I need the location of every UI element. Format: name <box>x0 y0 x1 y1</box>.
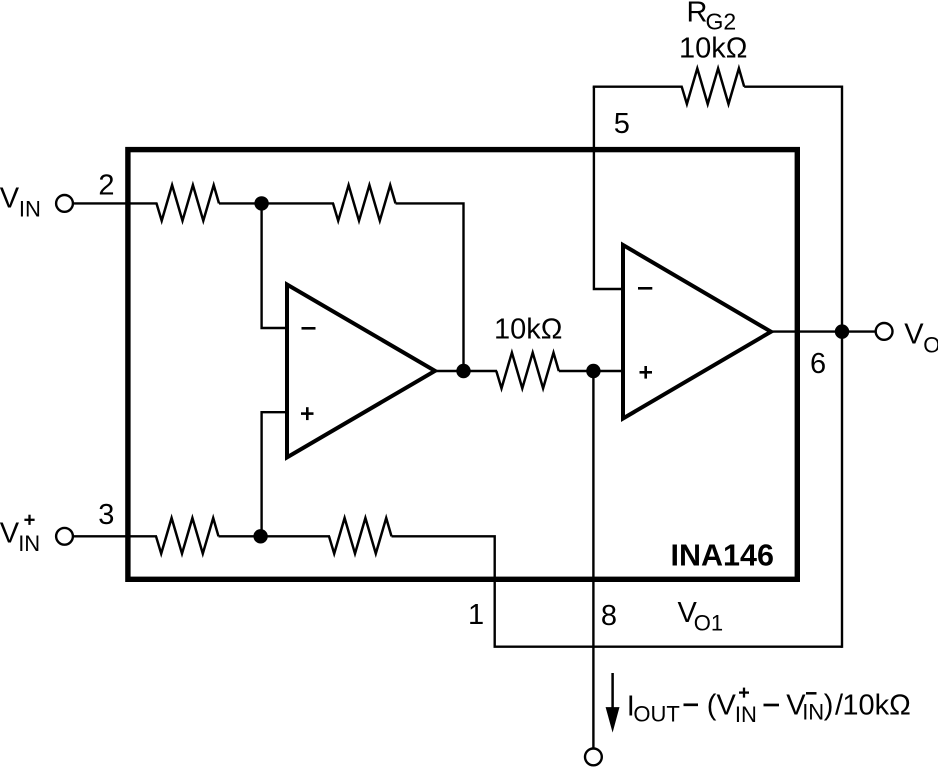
node B (V_IN+ resistor junction) <box>253 529 267 543</box>
terminal V_IN+ <box>56 528 73 545</box>
resistor R3b (lower feedback resistor) <box>329 518 392 554</box>
svg-text:V: V <box>0 182 20 214</box>
svg-text:G2: G2 <box>706 9 737 35</box>
wire to corner right of R1b <box>396 203 464 371</box>
svg-text:IN: IN <box>802 700 824 725</box>
wire to op-amp U2 non-inverting input <box>559 370 623 372</box>
node A (V_IN resistor junction) <box>254 196 268 210</box>
svg-text:IN: IN <box>19 196 41 221</box>
svg-text:2: 2 <box>98 170 114 202</box>
svg-text:8: 8 <box>601 600 617 632</box>
svg-text:10kΩ: 10kΩ <box>842 690 910 722</box>
op-amp U1 plus sign <box>301 412 314 415</box>
wire U2 output to V_O terminal <box>771 330 875 332</box>
svg-text:10kΩ: 10kΩ <box>494 314 562 346</box>
svg-text:OUT: OUT <box>633 702 679 727</box>
op-amp U1 minus sign <box>302 327 316 330</box>
resistor R_G2 <box>682 68 745 104</box>
op-amp U2 plus sign <box>640 371 653 374</box>
svg-text:): ) <box>824 690 834 722</box>
svg-text:5: 5 <box>614 108 630 140</box>
svg-text:O1: O1 <box>694 610 723 635</box>
svg-text:V: V <box>904 319 924 351</box>
svg-text:IN: IN <box>18 531 40 556</box>
resistor R1a (V_IN input resistor) <box>157 185 220 221</box>
svg-text:1: 1 <box>468 599 484 631</box>
svg-text:O: O <box>923 333 938 358</box>
svg-text:R: R <box>687 0 708 29</box>
resistor 10k middle <box>496 353 559 389</box>
wire node B segment <box>219 535 331 537</box>
svg-text:V: V <box>0 517 20 549</box>
node pin 8 junction <box>586 364 600 378</box>
wire V_IN input to resistor <box>74 202 158 204</box>
wire node A segment <box>219 202 334 204</box>
terminal I_OUT bottom <box>585 749 602 766</box>
wire R_G2 right segment down to bottom wire <box>744 87 842 648</box>
wire pin 1 down and along bottom <box>392 536 843 646</box>
svg-text:10kΩ: 10kΩ <box>679 32 747 64</box>
wire pin 8 down to bottom terminal <box>592 371 594 748</box>
wire U1 output row to resistor <box>435 370 497 372</box>
svg-text:IN: IN <box>735 702 757 727</box>
wire op-amp U1 non-inverting input <box>262 412 287 536</box>
wire V_IN+ input to resistor <box>74 535 158 537</box>
arrow I_OUT <box>611 673 614 710</box>
svg-text:INA146: INA146 <box>671 539 774 573</box>
wire R_G2 left segment <box>593 85 683 87</box>
wire pin 5 to U2 inverting input <box>594 87 623 289</box>
svg-text:(V: (V <box>707 690 737 722</box>
node V_O junction <box>835 324 849 338</box>
IC outline box INA146 <box>128 150 797 580</box>
op-amp U1 <box>287 285 435 458</box>
terminal V_O <box>876 323 893 340</box>
svg-text:6: 6 <box>810 348 826 380</box>
resistor R1b (feedback resistor top) <box>333 185 396 221</box>
resistor R3a (V_IN+ input resistor) <box>156 518 219 554</box>
op-amp U2 <box>623 245 771 419</box>
op-amp U2 minus sign <box>638 287 652 290</box>
node U1 output <box>456 364 470 378</box>
terminal V_IN <box>56 195 73 212</box>
wire op-amp U1 inverting input <box>262 203 287 328</box>
svg-text:3: 3 <box>98 499 114 531</box>
